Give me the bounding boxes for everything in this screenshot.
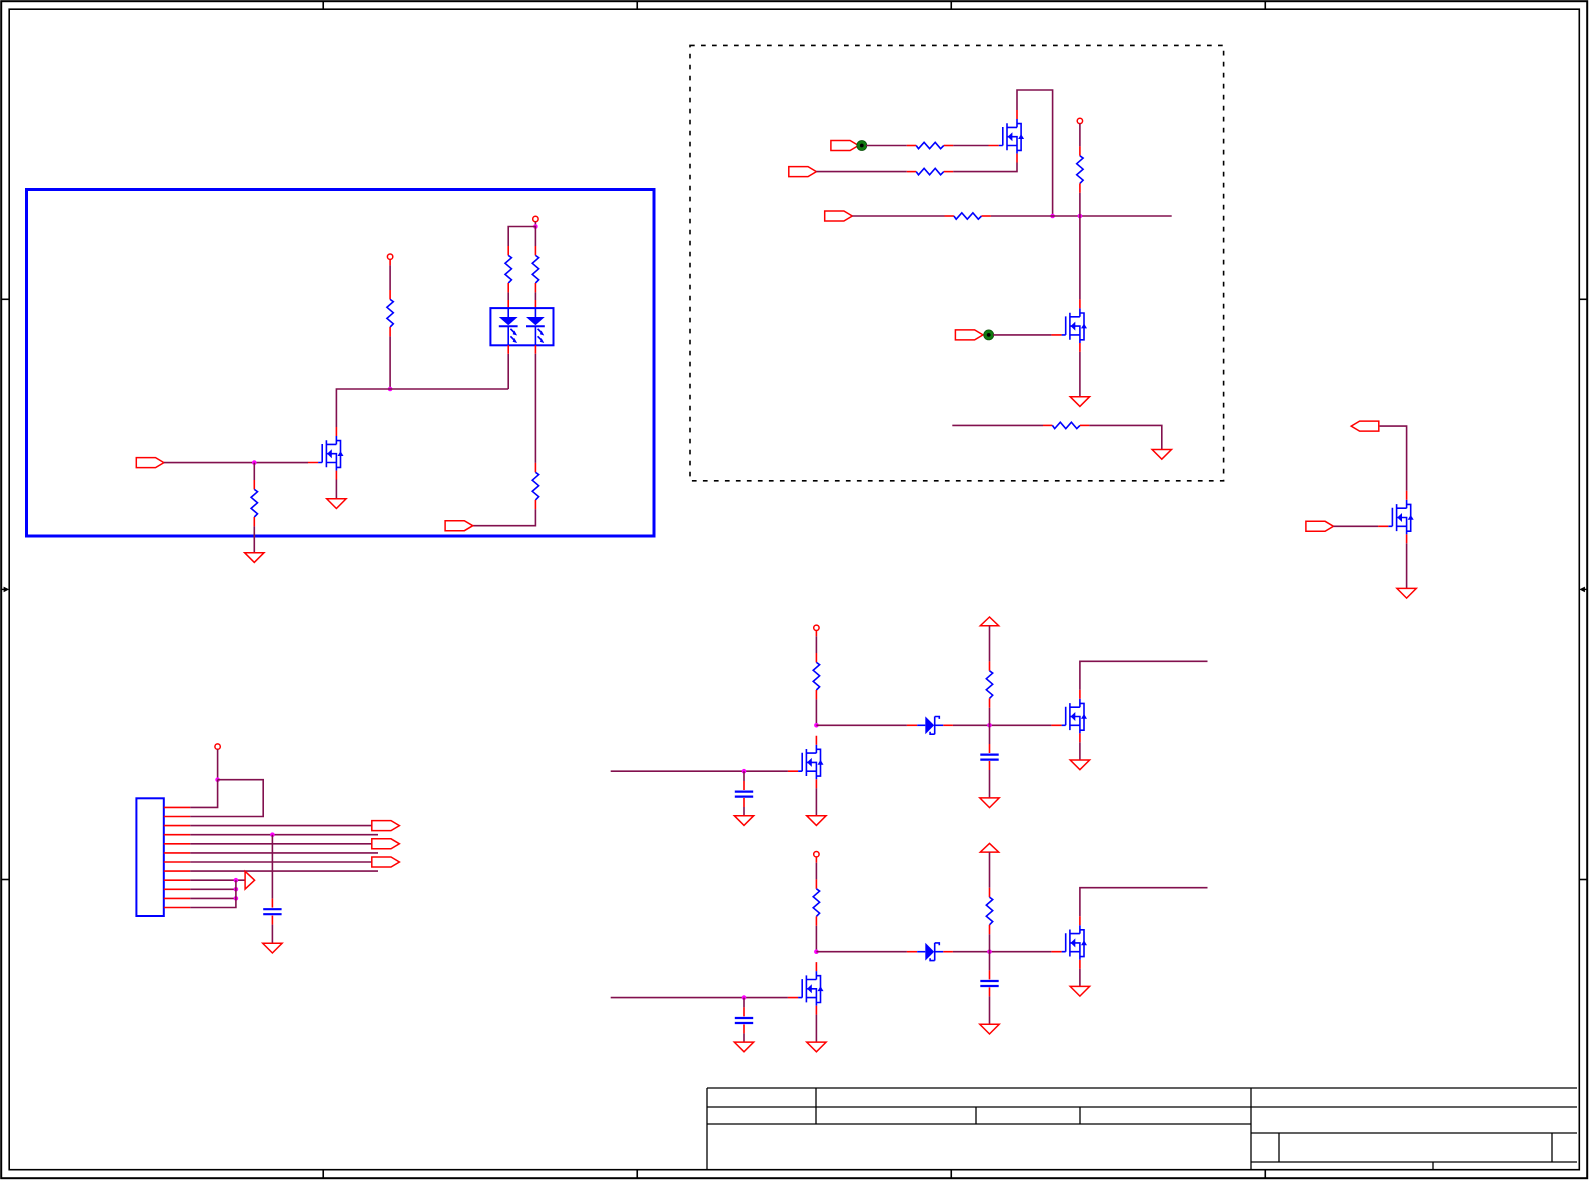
wire DB to node 2: [953, 951, 1052, 953]
wire node down to R2: [253, 463, 255, 480]
ground below QB1: [807, 1042, 826, 1052]
junction node A2: [987, 723, 992, 728]
frame zone ticks left: [1, 298, 9, 300]
wire Q4 source to ground: [1406, 543, 1408, 588]
resistor RA2: [986, 661, 992, 707]
connector J1 pin 3: [164, 825, 190, 827]
connector J1 pin 5: [164, 843, 190, 845]
connector J1 pin 11: [164, 897, 190, 899]
dual LED package box D1: [490, 308, 553, 345]
port IN2: [1306, 521, 1334, 531]
transistor QA1 (low side): [788, 736, 824, 789]
wire power to RB2: [989, 852, 991, 888]
zener diode DA: [907, 716, 953, 734]
ground below Q3: [1070, 397, 1089, 407]
ground below QA1: [807, 816, 826, 826]
wire CA1 to ground: [743, 807, 745, 816]
resistor RA1: [813, 653, 819, 699]
wire pin4: [190, 834, 378, 836]
wire CTRL1 to R6: [866, 145, 907, 147]
connector J1 pin 12: [164, 907, 190, 909]
junction node A1: [814, 723, 819, 728]
connector J1 pin 10: [164, 888, 190, 890]
capacitor CB2: [980, 970, 998, 996]
wire C_J to ground: [271, 925, 273, 944]
junction LED supply: [533, 224, 538, 229]
frame centre arrow right: [1579, 587, 1587, 593]
ground below QB2: [1070, 986, 1089, 996]
connector J1 pin 6: [164, 852, 190, 854]
wire CTRL3 to R8: [852, 215, 944, 217]
wire R5 to port OUT1: [473, 509, 536, 525]
wire QB2 source to ground: [1079, 969, 1081, 987]
wire LED2 pin red below box: [534, 345, 536, 353]
wire junction to LED resistors: [508, 227, 535, 247]
wire LED1 cathode down to node: [507, 354, 509, 389]
connector J1 pin 1: [164, 806, 190, 808]
junction node R1/wire: [388, 387, 393, 392]
wire CB2 to ground: [989, 996, 991, 1024]
ground below C_J: [263, 943, 282, 953]
wire junction down to C_J: [271, 835, 273, 899]
wire Q2 top bend to node: [1017, 90, 1053, 216]
connector J1 pin 4: [164, 834, 190, 836]
resistor RB2: [986, 888, 992, 934]
connector J1 pin 7: [164, 861, 190, 863]
wire Q3 source to ground: [1079, 352, 1081, 397]
wire RB1 to node: [815, 926, 817, 952]
net flag green CTRL1: [857, 141, 867, 151]
blue group box: [27, 190, 655, 537]
wire Q1 source to ground: [335, 480, 337, 499]
connector J1 pin 9: [164, 879, 190, 881]
wire node to zener DB: [816, 951, 907, 953]
ground below CB2: [980, 1024, 999, 1034]
resistor R5: [532, 463, 538, 509]
terminal T2 (LED supply): [533, 216, 538, 221]
port CTRL4: [955, 330, 983, 340]
wire R4 to LED box: [534, 292, 536, 300]
terminal T_A: [814, 625, 819, 630]
wire CTRL2 to R7: [816, 171, 906, 173]
resistor R3 (left LED): [505, 246, 511, 292]
terminal T_J (connector supply): [215, 744, 220, 749]
wire node to pin1: [190, 780, 217, 808]
zener diode DB: [907, 943, 953, 961]
wire pin3 to port PA: [190, 825, 372, 827]
wire QB2 drain up and right: [1080, 888, 1208, 917]
wire CTRL4 to Q3 gate: [993, 334, 1051, 336]
resistor R10: [1043, 422, 1089, 428]
wire node down to Q3 drain: [1079, 216, 1081, 299]
port OUT1: [445, 521, 473, 531]
wire node to zener DA: [816, 724, 907, 726]
wire T1 to R1: [389, 259, 391, 265]
wire pin11: [190, 897, 236, 899]
port IN1: [136, 458, 164, 468]
resistor R2: [251, 480, 257, 526]
wire R1 to node: [389, 336, 391, 389]
ground below Q4: [1397, 588, 1416, 598]
wire pin6: [190, 852, 378, 854]
wire RA1 to node: [815, 699, 817, 725]
wire CB1 to ground: [743, 1033, 745, 1042]
LED D1B: [526, 309, 545, 346]
terminal T3: [1077, 118, 1082, 123]
wire pin10: [190, 888, 236, 890]
wire RA2 to node: [989, 708, 991, 726]
wire T_J down to junction: [217, 749, 219, 779]
wire R3 to LED box: [507, 292, 509, 300]
wire horizontal node to LED1, corner down to Q1 drain: [336, 389, 508, 427]
transistor QA2 (high side): [1051, 690, 1087, 743]
wire DA to node 2: [953, 724, 1052, 726]
wire R6 to Q2 gate: [953, 145, 988, 147]
wire RB2 to node: [989, 934, 991, 952]
wire node down to CA2: [989, 725, 991, 744]
ground below CB1: [734, 1042, 753, 1052]
wire pin5 to port PB: [190, 843, 372, 845]
wire pin7 to port PC: [190, 861, 372, 863]
resistor R9: [1077, 146, 1083, 192]
wire R10 to ground: [1089, 425, 1161, 449]
ground below CA2: [980, 798, 999, 808]
resistor R4 (right LED): [532, 246, 538, 292]
frame zone ticks top: [322, 1, 324, 9]
junction pin11: [234, 896, 239, 901]
power flag VCC_B: [980, 843, 998, 852]
LED D1A: [499, 309, 518, 346]
junction pin9: [234, 878, 239, 883]
wire R8 across nodes to right: [991, 215, 1172, 217]
dashed option box: [690, 45, 1224, 480]
frame zone ticks bottom: [322, 1170, 324, 1179]
transistor Q1: [308, 427, 344, 480]
power flag VCC_A: [980, 617, 998, 626]
port PC: [372, 857, 400, 867]
wire node to pin2 (U route): [190, 780, 263, 817]
wire pin12 and bus vertical: [190, 880, 236, 907]
transistor Q3: [1051, 299, 1087, 352]
frame centre arrow left: [1, 587, 9, 593]
transistor Q2: [989, 110, 1025, 163]
port CTRL1: [831, 141, 859, 151]
net flag green CTRL4: [984, 330, 994, 340]
port CTRL3: [825, 211, 853, 221]
off-page arrow: [245, 871, 255, 889]
frame zone ticks right: [1579, 298, 1587, 300]
wire node down to CB2: [989, 952, 991, 971]
junction pin4/cap: [270, 832, 275, 837]
wire QA2 source to ground: [1079, 742, 1081, 760]
wire IN2 to Q4 gate: [1334, 525, 1379, 527]
wire R2 to ground: [253, 526, 255, 552]
wire gate row A: [611, 770, 788, 772]
junction node B2: [987, 949, 992, 954]
wire node to CA1: [743, 771, 745, 781]
connector J1 pin 8: [164, 870, 190, 872]
connector J1: [136, 798, 163, 916]
wire LED1 pin red below box: [507, 345, 509, 353]
transistor QB2 (high side): [1051, 916, 1087, 969]
wire node to CB1: [743, 998, 745, 1008]
ground right of R10: [1152, 450, 1171, 460]
ground below CA1: [734, 816, 753, 826]
wire pin9 to off-page arrow: [190, 879, 245, 881]
ground below QA2: [1070, 760, 1089, 770]
junction node B1: [814, 949, 819, 954]
wire pin8: [190, 870, 378, 872]
port PB: [372, 839, 400, 849]
wire gate row B: [611, 997, 788, 999]
resistor R1: [387, 290, 393, 336]
wire power to RA2: [989, 626, 991, 662]
junction pin10: [234, 887, 239, 892]
junction node at 1079.9: [1078, 214, 1083, 219]
resistor R7: [907, 168, 953, 174]
wire T2 down to junction: [534, 222, 536, 227]
capacitor CA1: [735, 781, 753, 807]
junction gate/R2: [252, 460, 257, 465]
port OUT2 (left pointing): [1351, 421, 1379, 431]
title block: [707, 1087, 1577, 1089]
wire T to RA1: [815, 631, 817, 637]
wire T to RB1: [815, 857, 817, 863]
wire CA2 to ground: [989, 770, 991, 798]
resistor R6: [907, 142, 953, 148]
junction gate/CB1: [742, 995, 747, 1000]
capacitor C_J: [263, 899, 281, 925]
connector J1 pin 2: [164, 816, 190, 818]
transistor Q4: [1378, 491, 1414, 544]
wire R9 to node: [1079, 193, 1081, 216]
wire R7 to Q2 source: [953, 163, 1017, 172]
junction node at 1052.6: [1050, 214, 1055, 219]
ground below Q1: [327, 499, 346, 509]
transistor QB1 (low side): [788, 962, 824, 1015]
capacitor CB1: [735, 1007, 753, 1033]
wire QB1 source to ground: [815, 1015, 817, 1043]
ground below R2: [245, 553, 264, 563]
wire T3 to R9: [1079, 124, 1081, 147]
wire port to Q1 gate: [164, 462, 308, 464]
junction gate/CA1: [742, 769, 747, 774]
resistor RB1: [813, 879, 819, 925]
port CTRL2: [789, 167, 817, 177]
junction supply node: [215, 777, 220, 782]
capacitor CA2: [980, 744, 998, 770]
wire stub to R10: [952, 424, 1043, 426]
wire OUT2 to Q4 drain: [1380, 426, 1407, 491]
resistor R8: [945, 213, 991, 219]
wire QA1 source to ground: [815, 788, 817, 816]
terminal T1 (top of R1): [387, 254, 392, 259]
wire QA2 drain up and right: [1080, 661, 1208, 690]
terminal T_B: [814, 852, 819, 857]
port PA: [372, 821, 400, 831]
wire LED2 cathode down to R5: [534, 354, 536, 463]
